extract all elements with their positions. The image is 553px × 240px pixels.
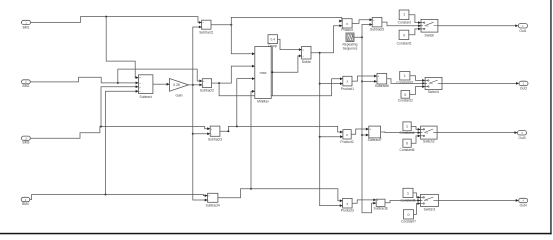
svg-text:Divide: Divide bbox=[302, 60, 311, 64]
inport BM3 bbox=[22, 136, 31, 140]
svg-text:Constant5: Constant5 bbox=[399, 148, 414, 152]
svg-text:Out3: Out3 bbox=[518, 136, 525, 140]
wire Switch3 out to Out4 bbox=[438, 199, 515, 201]
arrowhead Out1 bbox=[515, 24, 518, 27]
svg-text:Constant1: Constant1 bbox=[397, 41, 412, 45]
node junction divide row2 bbox=[319, 83, 321, 85]
arrowhead adder in1 bbox=[136, 76, 139, 79]
arrowhead Switch in3 bbox=[418, 28, 421, 31]
node junction In3 branch bbox=[100, 126, 102, 128]
constant Constant6 value 1 bbox=[403, 188, 413, 197]
node junction repseq out bbox=[361, 36, 363, 38]
arrowhead Subtract4 in1 bbox=[205, 194, 208, 197]
arrowhead Divide in1 bbox=[299, 48, 302, 51]
outport Out3 bbox=[518, 131, 527, 136]
arrowhead Subtract5 in2 bbox=[370, 23, 373, 26]
switch Switch bbox=[421, 19, 438, 32]
svg-text:Product1: Product1 bbox=[341, 87, 354, 91]
svg-text:x: x bbox=[347, 202, 349, 206]
svg-text:-: - bbox=[370, 134, 371, 137]
constant Constant5 value 0 bbox=[403, 139, 411, 147]
wire Constant1 to Switch in3 bbox=[409, 29, 418, 35]
outport Out4 bbox=[519, 198, 528, 202]
node junction Subtract3 out bbox=[227, 130, 229, 132]
wire Constant10 to Switch1 in1 bbox=[410, 76, 422, 81]
wire Subtract(adder) out to Gain bbox=[153, 83, 167, 85]
minmax MinMax bbox=[255, 47, 271, 99]
subtractor Subtract3 bbox=[210, 126, 220, 136]
wire Subtract7 out to Switch2 in2 bbox=[381, 131, 418, 134]
subtractor Subtract2 bbox=[202, 79, 211, 88]
switch Switch2 icon internals bbox=[421, 129, 438, 137]
arrowhead Subtract2 in2 bbox=[199, 83, 202, 86]
arrowhead Subtract8 in1 bbox=[373, 199, 376, 202]
wire In3 to Subtract3 in1 bbox=[30, 127, 207, 139]
svg-text:Product: Product bbox=[341, 28, 352, 32]
svg-text:Subtract6: Subtract6 bbox=[375, 84, 389, 88]
wire In4 branch to Subtract(adder) in4 bbox=[106, 91, 136, 194]
wire Constant4 to Switch2 in1 bbox=[411, 126, 417, 129]
node junction Subtract2 out bbox=[218, 82, 220, 84]
constant Constant10 value 1 bbox=[400, 72, 410, 81]
node junction Gain average bbox=[192, 84, 194, 86]
arrowhead Subtract8 in2 bbox=[373, 202, 376, 205]
inport BM1 bbox=[22, 20, 31, 24]
arrowhead Switch3 in3 bbox=[418, 202, 421, 205]
arrowhead Product1 in2 bbox=[340, 82, 343, 85]
svg-text:0.4: 0.4 bbox=[270, 38, 275, 42]
subtractor Subtract7 bbox=[369, 126, 381, 138]
svg-text:-: - bbox=[373, 24, 374, 27]
arrowhead Switch2 in2 bbox=[418, 131, 421, 134]
node junction In4 branch bbox=[105, 194, 107, 196]
outport Out1 bbox=[518, 24, 527, 29]
wire Constant2 to Switch1 in3 bbox=[410, 87, 422, 95]
svg-text:-: - bbox=[378, 81, 379, 84]
arrowhead Out4 bbox=[516, 199, 519, 202]
svg-text:Subtract8: Subtract8 bbox=[374, 207, 388, 211]
svg-text:Subtract4: Subtract4 bbox=[206, 204, 220, 208]
constant Constant4 value 1 bbox=[403, 122, 411, 131]
svg-text:Switch3: Switch3 bbox=[424, 208, 436, 212]
wire average branch to Subtract3 in2 bbox=[193, 133, 207, 135]
svg-text:Constant10: Constant10 bbox=[396, 81, 413, 85]
arrowhead Product in2 bbox=[339, 24, 342, 27]
node junction repseq row3 bbox=[361, 134, 363, 136]
arrowhead Product2 in1 bbox=[340, 131, 343, 134]
node junction average row3 bbox=[192, 133, 194, 135]
arrowhead MinMax in3 bbox=[252, 77, 255, 80]
switch Switch1 icon internals bbox=[425, 80, 442, 88]
adder Subtract bbox=[139, 75, 153, 94]
subtractor Subtract4 bbox=[208, 193, 218, 202]
switch Switch2 bbox=[421, 126, 438, 139]
gain Gain 0.25 bbox=[170, 79, 189, 92]
svg-text:Out4: Out4 bbox=[520, 204, 527, 208]
product Product3 bbox=[343, 198, 353, 208]
wire Divide to Product2 in2 bbox=[320, 136, 340, 138]
gain block Droop 0.4 bbox=[268, 35, 278, 44]
wire In4 to Subtract4 in1 bbox=[30, 195, 205, 200]
svg-text:-: - bbox=[211, 133, 212, 136]
wire riser Subtract4 to MinMax in4 bbox=[250, 91, 253, 189]
svg-text:-: - bbox=[202, 26, 203, 29]
arrowhead Switch1 in2 bbox=[422, 82, 425, 85]
svg-text:>=: >= bbox=[425, 199, 429, 203]
node junction Divide out bbox=[319, 52, 321, 54]
svg-text:-: - bbox=[203, 84, 204, 87]
node junction row3 riser bbox=[236, 125, 238, 127]
arrowhead MinMax in1 bbox=[252, 52, 255, 55]
sawtooth icon Repeating Sequence bbox=[347, 34, 353, 40]
switch Switch1 bbox=[425, 77, 442, 89]
inport BM4 bbox=[21, 197, 30, 201]
wire Droop out to Divide in1 bbox=[278, 39, 299, 49]
svg-text:1: 1 bbox=[406, 125, 408, 129]
wire Repeating Sequence out fanout bbox=[354, 37, 373, 212]
arrowhead Subtract7 in2 bbox=[366, 134, 369, 137]
wire Subtract6 out to Switch1 in2 bbox=[387, 79, 422, 84]
arrowhead adder in2 bbox=[136, 82, 139, 85]
arrowhead MinMax in4 bbox=[252, 90, 255, 93]
svg-text:0: 0 bbox=[408, 213, 410, 217]
svg-text:Constant: Constant bbox=[398, 21, 411, 25]
svg-text:Subtract5: Subtract5 bbox=[370, 27, 384, 31]
arrowhead Gain in bbox=[167, 83, 170, 86]
svg-text:1: 1 bbox=[407, 191, 409, 195]
svg-text:BM4: BM4 bbox=[22, 202, 29, 206]
svg-text:Product3: Product3 bbox=[341, 209, 354, 213]
wire Divide to Product3 in2 bbox=[320, 205, 340, 207]
arrowhead Divide in2 bbox=[299, 54, 302, 57]
svg-text:MinMax: MinMax bbox=[257, 100, 269, 104]
constant Constant7 value 0 bbox=[404, 210, 414, 219]
svg-text:x: x bbox=[347, 80, 349, 84]
arrowhead Out2 bbox=[516, 82, 519, 85]
constant Constant value 1 bbox=[399, 10, 409, 20]
svg-text:Out2: Out2 bbox=[520, 87, 527, 91]
svg-text:Subtract: Subtract bbox=[140, 95, 152, 99]
wire In1 branch to Subtract(adder) in1 bbox=[106, 17, 136, 78]
wire Constant to Switch in1 bbox=[409, 15, 418, 23]
wire Droop vertical bbox=[271, 47, 273, 96]
svg-text:Subtract3: Subtract3 bbox=[208, 138, 222, 142]
node junction In1 branch bbox=[105, 16, 107, 18]
svg-text:1: 1 bbox=[404, 74, 406, 78]
svg-text:-: - bbox=[377, 202, 378, 205]
arrowhead Subtract3 in1 bbox=[207, 127, 210, 130]
frame right border bbox=[550, 0, 551, 234]
arrowhead Subtract5 in1 bbox=[370, 18, 373, 21]
arrowhead Subtract6 in2 bbox=[374, 80, 377, 83]
svg-text:x: x bbox=[346, 22, 348, 26]
node junction In2 branch bbox=[117, 82, 119, 84]
svg-text:BM3: BM3 bbox=[23, 141, 30, 145]
svg-text:Droop: Droop bbox=[268, 44, 277, 48]
arrowhead Switch2 in1 bbox=[418, 128, 421, 131]
arrowhead adder in3 bbox=[136, 85, 139, 88]
subtractor Subtract6 bbox=[377, 73, 387, 84]
switch Switch3 bbox=[420, 194, 438, 206]
arrowhead Subtract4 in2 bbox=[205, 199, 208, 202]
wire Subtract8 out to Switch3 in2 bbox=[385, 200, 417, 202]
svg-text:-: - bbox=[208, 199, 209, 202]
svg-text:Constant7: Constant7 bbox=[401, 220, 416, 224]
svg-text:Switch1: Switch1 bbox=[428, 90, 440, 94]
wire Product2 out to Subtract7 in1 bbox=[351, 129, 366, 134]
source Repeating Sequence bbox=[346, 33, 354, 42]
arrowhead Product2 in2 bbox=[340, 135, 343, 138]
wire Divide to Product1 in2 bbox=[320, 83, 340, 85]
subtractor Subtract1 bbox=[202, 20, 211, 29]
svg-text:Subtract7: Subtract7 bbox=[368, 138, 382, 142]
wire Subtract4 out long line to Product3 in1 bbox=[218, 189, 340, 201]
svg-text:Switch: Switch bbox=[425, 34, 435, 38]
svg-text:>=: >= bbox=[426, 24, 430, 28]
svg-text:Constant2: Constant2 bbox=[398, 99, 413, 103]
svg-text:>=: >= bbox=[425, 131, 429, 135]
node junction repseq row2 bbox=[361, 80, 363, 82]
svg-text:0: 0 bbox=[406, 142, 408, 146]
node junction divide row3 bbox=[319, 136, 321, 138]
svg-text:0: 0 bbox=[404, 93, 406, 97]
svg-text:x: x bbox=[346, 133, 348, 137]
arrowhead Subtract1 in1 bbox=[199, 21, 202, 24]
inport BM2 bbox=[22, 80, 31, 84]
wire Divide out fanout vertical bbox=[311, 53, 320, 206]
arrowhead Switch1 in3 bbox=[422, 85, 425, 88]
wire Subtract2 branch long line to Product1 in1 bbox=[219, 79, 340, 96]
frame bottom border bbox=[0, 233, 552, 235]
svg-text:0: 0 bbox=[403, 34, 405, 38]
arrowhead Switch in2 bbox=[418, 24, 421, 27]
wire MinMax out to Divide in2 bbox=[271, 56, 299, 72]
arrowhead Product3 in2 bbox=[340, 204, 343, 207]
wire Product3 out to Subtract8 in1 bbox=[352, 200, 373, 203]
product Product bbox=[342, 19, 352, 28]
svg-text:BM2: BM2 bbox=[23, 84, 30, 88]
product Product2 bbox=[343, 130, 351, 139]
arrowhead MinMax in2 bbox=[252, 65, 255, 68]
wire Constant5 to Switch2 in3 bbox=[411, 136, 417, 143]
node junction row4 riser bbox=[250, 188, 252, 190]
svg-text:Product2: Product2 bbox=[340, 140, 353, 144]
svg-text:BM1: BM1 bbox=[23, 25, 30, 29]
wire Subtract1 out long line to Product in1 bbox=[211, 17, 342, 24]
svg-text:0.25: 0.25 bbox=[173, 83, 180, 87]
wire Product1 out to Subtract6 in1 bbox=[352, 76, 374, 81]
node junction Subtract1 out bbox=[230, 24, 232, 26]
wire Gain out to Subtract2 in2 bbox=[188, 84, 199, 86]
svg-text:Subtract2: Subtract2 bbox=[200, 89, 214, 93]
wire average to Subtract1 in2 bbox=[193, 27, 199, 85]
svg-text:max: max bbox=[260, 71, 267, 75]
wire In3 branch to Subtract(adder) in3 bbox=[101, 87, 136, 127]
wire Product out to Subtract5 in1 bbox=[352, 20, 369, 24]
constant Constant1 value 0 bbox=[399, 30, 409, 39]
arrowhead Product1 in1 bbox=[340, 77, 343, 80]
node junction MinMax out bbox=[271, 71, 273, 73]
svg-text:Switch2: Switch2 bbox=[423, 140, 435, 144]
constant Constant2 value 0 bbox=[401, 91, 410, 99]
product Product1 bbox=[343, 76, 352, 86]
svg-text:>=: >= bbox=[430, 82, 434, 86]
wire average down to Subtract3 in2 and Subtract4 in2 bbox=[193, 85, 205, 200]
arrowhead Switch3 in2 bbox=[418, 199, 421, 202]
svg-text:Constant6: Constant6 bbox=[400, 199, 415, 203]
switch Switch3 icon internals bbox=[420, 197, 438, 205]
arrowhead Subtract1 in2 bbox=[199, 26, 202, 29]
svg-text:Sequence: Sequence bbox=[343, 46, 358, 50]
arrowhead Subtract6 in1 bbox=[374, 75, 377, 78]
switch Switch icon internals bbox=[421, 22, 438, 30]
svg-text:Subtract1: Subtract1 bbox=[199, 30, 213, 34]
wire riser Subtract3 to MinMax in3 bbox=[237, 79, 252, 127]
wire Constant6 to Switch3 in1 bbox=[413, 193, 417, 198]
svg-text:Gain: Gain bbox=[176, 93, 183, 97]
arrowhead Product3 in1 bbox=[340, 199, 343, 202]
arrowhead Subtract3 in2 bbox=[207, 132, 210, 135]
arrowhead Product in1 bbox=[339, 20, 342, 23]
wire In2 to Subtract(adder) in2 bbox=[30, 77, 136, 83]
wire RepSeq to Subtract7 in2 bbox=[362, 134, 366, 136]
wire Subtract3 out long line to Product2 in1 bbox=[220, 126, 340, 132]
wire Switch out to Out1 bbox=[438, 25, 515, 27]
arrowhead Switch in1 bbox=[418, 21, 421, 24]
arrowhead Subtract7 in1 bbox=[366, 128, 369, 131]
arrowhead Subtract2 in1 bbox=[199, 80, 202, 83]
outport Out2 bbox=[519, 81, 528, 86]
subtractor Subtract8 bbox=[376, 199, 385, 206]
svg-text:1: 1 bbox=[403, 13, 405, 17]
arrowhead Out3 bbox=[515, 131, 518, 134]
wire In1 to Subtract1 in1 bbox=[31, 17, 199, 23]
wire Subtract5 out to Switch in2 bbox=[382, 22, 418, 26]
wire RepSeq to Subtract5 in2 bbox=[362, 25, 369, 38]
divide Divide bbox=[302, 46, 311, 59]
wire riser Subtract1 to MinMax in1 bbox=[231, 17, 252, 53]
arrowhead Switch1 in1 bbox=[422, 79, 425, 82]
wire Switch1 out to Out2 bbox=[442, 82, 516, 84]
svg-text:Constant4: Constant4 bbox=[399, 131, 414, 135]
wire Divide to Product in2 bbox=[320, 26, 340, 53]
wire RepSeq to Subtract6 in2 bbox=[362, 80, 374, 82]
wire In2 branch to Subtract2 in1 bbox=[118, 69, 199, 83]
arrowhead Switch3 in1 bbox=[418, 196, 421, 199]
wire Constant7 to Switch3 in3 bbox=[414, 204, 418, 215]
wire Subtract2 out to MinMax in2 bbox=[212, 66, 252, 83]
arrowhead Switch2 in3 bbox=[418, 134, 421, 137]
wire Switch2 out to Out3 bbox=[437, 132, 514, 134]
subtractor Subtract5 bbox=[372, 17, 382, 27]
arrowhead adder in4 bbox=[136, 90, 139, 93]
svg-text:Out1: Out1 bbox=[519, 29, 526, 33]
